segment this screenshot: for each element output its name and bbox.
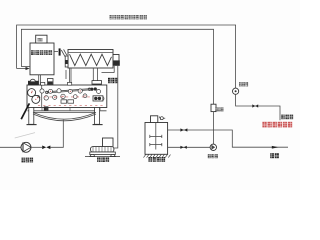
wire sludge line to press drain riser — [50, 120, 63, 148]
label tanklabel2 — [148, 157, 165, 162]
wire inner water loop (top) — [21, 29, 213, 104]
hopper box on tank T1 — [36, 35, 47, 43]
machine AC1 air compressor — [90, 138, 116, 157]
label chushui — [270, 153, 279, 158]
wire tank T1 outlet to mixer funnel — [54, 51, 58, 53]
label tanklabel — [31, 50, 52, 55]
label huiyongshui — [281, 115, 293, 120]
press BP1 belt path (red dashed) — [38, 97, 104, 106]
label title — [110, 15, 147, 19]
small pump under flocculant tank — [29, 79, 36, 82]
press BP1 lower boxes — [61, 96, 103, 103]
mixer M1 discharge chute to press — [92, 68, 102, 87]
ground line under compressor — [85, 156, 120, 158]
wire raw sludge suction line (left edge) — [0, 146, 21, 148]
wire inner loop inlet stub into flocculant tank — [21, 66, 29, 68]
ground hatch under tank T2 — [144, 155, 171, 158]
tank T2 motor side icon — [159, 117, 165, 120]
mixer M1 inlet flange — [65, 56, 68, 67]
pump P3 dosing/booster pump — [210, 144, 216, 150]
faint floor diagonal — [15, 133, 35, 138]
mixer M1 outlet box — [113, 55, 120, 66]
funnel feed chute into mixer — [60, 48, 68, 57]
pump P4 wash-water pump (top right) — [233, 88, 239, 94]
press BP1 dark footer marks — [32, 106, 100, 110]
mixer M1 support leg — [69, 68, 71, 85]
label redtext — [262, 122, 292, 128]
press BP1 roller red dots — [31, 90, 86, 100]
wire short drop left of mixer leg — [65, 70, 67, 79]
valve V1 sludge line valve — [42, 146, 50, 150]
wire outer water loop (top) — [17, 25, 236, 88]
mixer M1 screw mixer vessel — [68, 50, 113, 69]
wire tank upper outlet line to outfall — [168, 130, 288, 147]
arrow outfall direction — [272, 146, 279, 149]
label jiayaobeng — [208, 154, 218, 158]
label boxtext — [38, 38, 43, 41]
pump P1 sludge feed pump — [21, 142, 31, 152]
valve V4 on lower outlet line — [180, 146, 186, 149]
wire riser below flow meter — [213, 112, 215, 145]
wire from wash pump down and right to reuse water — [236, 94, 280, 120]
press BP1 top small boxes — [41, 82, 72, 85]
label chongxibeng — [239, 82, 248, 86]
press BP1 right leg — [93, 108, 103, 125]
label liuliangji — [215, 107, 223, 111]
valve V5 on reuse water line — [252, 104, 258, 107]
wire mixer outlet drop pipe to air compressor — [114, 65, 118, 148]
tank T2 agitator shaft and paddles — [150, 123, 162, 150]
label wunibeng — [22, 158, 34, 163]
press BP1 rollers bottom row — [36, 94, 87, 100]
press BP1 drive housing (dark header) — [28, 81, 39, 86]
wire tank T1 drop pipes into press — [39, 75, 41, 85]
flow meter FM on riser — [211, 104, 216, 111]
label feedbold — [108, 78, 117, 83]
tank T2 motor box — [151, 116, 158, 123]
label kongyaji — [97, 157, 109, 162]
tank T2 wash water tank with agitator — [145, 123, 168, 155]
wire tank lower outlet line to dosing pump — [168, 146, 210, 148]
press BP1 rollers top row — [30, 89, 104, 101]
press BP1 inclined belt run — [46, 87, 97, 93]
tank T1 flocculant preparation tank — [30, 43, 54, 75]
press BP1 scraper strut (bold diagonal) — [21, 103, 29, 119]
press BP1 feed inlet box (left) — [48, 79, 54, 85]
press BP1 left leg — [27, 108, 37, 125]
machine BP1 belt filter press body — [27, 85, 107, 112]
press BP1 tension rollers (left tower) — [28, 89, 40, 104]
wire outer loop inlet stub with arrow into flocculant tank — [17, 67, 30, 70]
wire pump discharge to valve — [31, 146, 42, 148]
press BP1 filtrate pan (catenary) — [33, 112, 96, 120]
wire mixer auxiliary drop pipe — [102, 66, 115, 73]
valve V3 on upper outlet line — [180, 128, 187, 131]
